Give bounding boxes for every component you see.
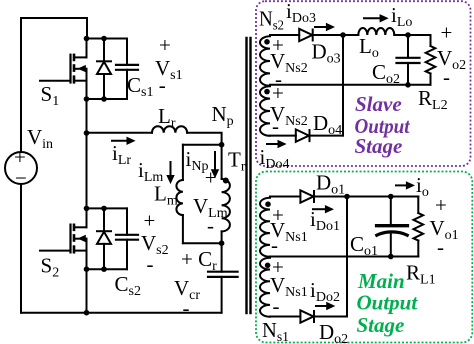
arrow iLo — [364, 14, 389, 22]
diode Do1 — [300, 190, 418, 202]
capacitor Cs2 — [116, 208, 138, 269]
svg-text:iDo2: iDo2 — [310, 278, 340, 305]
svg-text:Do4: Do4 — [313, 111, 342, 138]
arrow iNp — [211, 152, 219, 178]
polarity dot Ns1 bottom winding — [265, 263, 271, 269]
winding Ns1 bottom — [260, 258, 300, 317]
resistor RL2 — [426, 35, 436, 85]
svg-text:S1: S1 — [41, 82, 60, 109]
svg-text:Lo: Lo — [359, 34, 379, 61]
svg-text:Tr: Tr — [228, 148, 246, 175]
inductor Lm — [176, 145, 183, 244]
arrow iDo3 — [315, 23, 335, 31]
wire S2 group bottom — [87, 268, 128, 270]
transistor Q2 S2 mosfet — [40, 208, 87, 269]
wire Do4 return vertical — [342, 35, 344, 136]
wire left rail lower — [20, 184, 22, 313]
svg-text:-: - — [443, 65, 450, 89]
junction dots main — [265, 194, 394, 268]
junction S2 drain node — [84, 206, 90, 212]
wire Do2 return vertical — [346, 197, 348, 317]
svg-text:Do2: Do2 — [319, 320, 348, 344]
diode Do3 — [299, 29, 358, 41]
wire top rail — [21, 18, 87, 39]
junction half-bridge midpoint — [84, 130, 90, 136]
svg-text:Vo1: Vo1 — [430, 216, 459, 243]
svg-text:+: + — [441, 21, 453, 45]
border main stage — [256, 172, 472, 343]
junction Do3/Do4 cathode node — [340, 32, 346, 38]
wire S2 source to bottom rail — [86, 269, 88, 313]
svg-text:+ Cr: + Cr — [181, 247, 217, 274]
labels slave — [259, 0, 466, 172]
junction S1 source node — [84, 96, 90, 102]
svg-text:-: - — [183, 296, 190, 320]
junction D1 cathode node — [101, 96, 107, 102]
svg-text:Slave: Slave — [355, 92, 402, 116]
svg-text:-: - — [271, 233, 278, 257]
svg-text:Lm: Lm — [154, 182, 178, 209]
svg-text:Ns1: Ns1 — [262, 318, 289, 344]
svg-text:RL1: RL1 — [406, 261, 436, 288]
svg-text:Np: Np — [212, 102, 234, 129]
inductor Lo — [358, 28, 430, 35]
border slave stage — [256, 1, 471, 166]
capacitor Co1 — [377, 197, 408, 257]
arrow iDo2 — [316, 302, 335, 310]
junction S2 source node — [84, 266, 90, 272]
svg-text:Main: Main — [357, 269, 405, 293]
inductor Lr — [87, 126, 222, 145]
svg-text:iLr: iLr — [112, 141, 131, 168]
wire S1 group top — [87, 38, 128, 40]
wire loop top — [183, 144, 222, 146]
svg-text:iLo: iLo — [391, 3, 412, 30]
diode D1 body of S1 — [97, 39, 111, 100]
polarity dot Ns2 bottom winding — [264, 89, 270, 95]
svg-text:+: + — [205, 166, 217, 190]
capacitor Cr — [208, 243, 238, 313]
svg-text:Output: Output — [357, 291, 419, 315]
polarity dot Ns2 top winding — [264, 39, 270, 45]
wire main center tap rail — [270, 256, 418, 258]
svg-text:Stage: Stage — [357, 313, 405, 337]
svg-text:Do3: Do3 — [312, 40, 341, 67]
svg-text:Cs2: Cs2 — [115, 272, 141, 299]
junction D1 anode node — [101, 36, 107, 42]
junction Do1/Do2 cathode node — [344, 194, 350, 200]
polarity dot Ns1 top winding — [265, 201, 271, 207]
node Np junction — [219, 142, 225, 148]
arrow io — [396, 181, 415, 189]
svg-text:+: + — [144, 209, 156, 233]
arrow iDo4 — [267, 140, 287, 148]
diode Do4 — [296, 129, 343, 141]
svg-text:iDo4: iDo4 — [260, 145, 290, 172]
junction D2 cathode node — [101, 266, 107, 272]
svg-text:Cs1 -: Cs1 - — [127, 73, 166, 100]
svg-text:Co1: Co1 — [350, 232, 378, 259]
wire left rail upper — [20, 18, 22, 152]
svg-text:Lr: Lr — [158, 104, 176, 131]
wire S1 group bottom — [87, 98, 128, 100]
junction Co2 top node — [405, 32, 411, 38]
wire S2 group top — [87, 207, 128, 209]
svg-text:Vo2: Vo2 — [437, 46, 466, 73]
svg-text:Ns2: Ns2 — [259, 7, 284, 34]
svg-text:-: - — [437, 235, 444, 259]
node midpoint wire — [86, 99, 88, 208]
svg-text:S2: S2 — [41, 254, 60, 281]
labels main — [262, 171, 459, 344]
source Vin — [5, 152, 37, 184]
junction S1 drain node — [84, 36, 90, 42]
winding Ns2 bottom — [260, 86, 296, 136]
junction dots slave — [264, 32, 411, 94]
svg-text:+: + — [159, 33, 171, 57]
diode Do2 — [300, 310, 347, 322]
transformer core — [247, 38, 251, 313]
arrow iLm — [166, 162, 174, 184]
junction dots primary — [84, 36, 229, 316]
diode D2 body of S2 — [97, 208, 111, 269]
svg-text:Vs2: Vs2 — [141, 231, 169, 258]
junction Co2 bottom node — [405, 82, 411, 88]
capacitor Co2 — [397, 35, 420, 85]
svg-text:Do1: Do1 — [316, 171, 345, 198]
svg-text:RL2: RL2 — [418, 86, 448, 113]
junction bottom rail at S2 source — [84, 310, 90, 316]
svg-text:-: - — [207, 214, 214, 238]
svg-text:-: - — [272, 114, 279, 138]
junction Co1 bottom node — [388, 254, 394, 260]
polarity dot primary winding — [223, 178, 229, 184]
junction Co1 top node — [388, 194, 394, 200]
svg-text:io: io — [416, 173, 429, 200]
junction D2 anode node — [101, 206, 107, 212]
junction primary bottom — [219, 240, 225, 246]
svg-text:Vin: Vin — [27, 125, 53, 152]
svg-text:-: - — [273, 294, 280, 318]
arrow iLr — [112, 137, 136, 145]
wire slave center tap rail — [270, 84, 431, 86]
wire loop bottom — [183, 242, 222, 244]
svg-text:-: - — [147, 252, 154, 276]
svg-text:−: − — [15, 166, 27, 190]
svg-text:+: + — [435, 193, 447, 217]
transistor Q1 S1 mosfet — [40, 39, 87, 100]
resistor RL1 — [414, 197, 424, 257]
transformer primary Tr winding — [222, 145, 230, 244]
arrow iDo1 — [313, 205, 334, 213]
wire bottom rail — [21, 312, 222, 314]
svg-text:iDo3: iDo3 — [286, 0, 316, 26]
winding Ns1 top — [260, 197, 300, 257]
labels primary — [14, 33, 246, 320]
winding Ns2 top — [260, 35, 299, 86]
svg-text:Stage: Stage — [355, 134, 403, 158]
capacitor Cs1 — [116, 39, 138, 100]
